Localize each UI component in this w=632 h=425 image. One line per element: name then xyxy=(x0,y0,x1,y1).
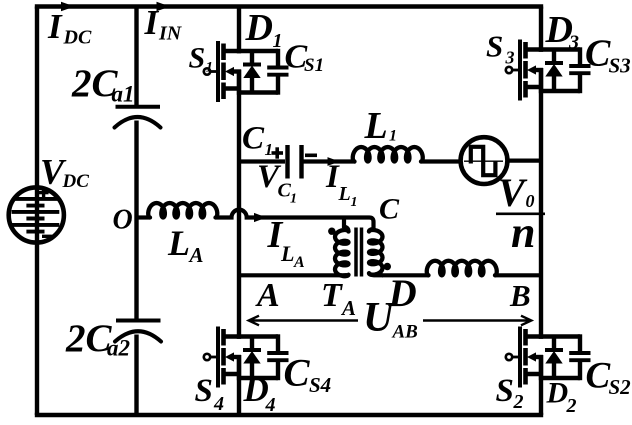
svg-text:C: C xyxy=(379,193,400,226)
capacitor CS3 xyxy=(569,66,590,73)
svg-text:L: L xyxy=(167,223,190,263)
wire snubber loop S3 xyxy=(539,47,580,93)
capacitor CS2 xyxy=(569,353,590,360)
svg-text:S1: S1 xyxy=(304,55,324,76)
polarity dot secondary xyxy=(384,263,391,270)
wire TA secondary to output inductor xyxy=(382,273,429,277)
transistor S1 (MOSFET) xyxy=(204,41,241,102)
diode D2 xyxy=(545,337,563,379)
capacitor 2Ca2 xyxy=(115,321,161,342)
wire TA primary return to A leg xyxy=(239,273,342,277)
svg-text:DC: DC xyxy=(63,27,92,49)
svg-text:4: 4 xyxy=(265,394,276,416)
arrow UAB right xyxy=(423,316,531,326)
svg-text:L: L xyxy=(364,105,388,147)
diode D1 xyxy=(243,51,261,93)
wire output inductor to B leg xyxy=(495,273,541,277)
wire Ca leg lower xyxy=(134,335,138,416)
wire snubber loop S1 xyxy=(237,49,278,95)
wire Ca leg middle xyxy=(134,121,138,321)
wire LA to node C (hops over A leg) xyxy=(216,210,374,231)
svg-text:S: S xyxy=(189,42,206,75)
wire source to B leg xyxy=(507,159,541,163)
arrow current ILA xyxy=(254,213,267,222)
inductor LA xyxy=(148,203,217,218)
transistor S2 (MOSFET) xyxy=(506,327,543,388)
svg-text:DC: DC xyxy=(62,171,90,192)
wire left rail with VDC branch xyxy=(35,7,39,416)
capacitor C1 xyxy=(288,145,302,179)
transistor S4 (MOSFET) xyxy=(204,327,241,388)
wire snubber loop S4 xyxy=(237,334,278,380)
svg-text:U: U xyxy=(363,295,396,341)
polarity dot primary xyxy=(328,228,335,235)
diode D3 xyxy=(545,50,563,92)
wire L1 to square-wave source xyxy=(421,159,459,163)
svg-text:S2: S2 xyxy=(609,375,632,399)
svg-text:A: A xyxy=(188,243,204,267)
wire snubber loop S2 xyxy=(539,334,580,380)
svg-text:D: D xyxy=(245,7,273,49)
svg-text:S4: S4 xyxy=(309,373,331,397)
svg-text:2: 2 xyxy=(566,395,577,417)
transistor S3 (MOSFET) xyxy=(506,40,543,101)
wire B leg top (rail corner to S3 drain) xyxy=(539,7,543,52)
svg-text:S: S xyxy=(486,29,503,64)
svg-text:L: L xyxy=(338,183,351,205)
wire top rail xyxy=(35,4,543,8)
svg-text:a1: a1 xyxy=(112,82,135,107)
source V0/n (square-wave voltage source) xyxy=(461,137,508,184)
capacitor CS4 xyxy=(267,353,288,360)
svg-text:A: A xyxy=(293,254,305,271)
transformer TA secondary winding xyxy=(369,229,374,232)
transformer TA core xyxy=(354,228,358,277)
capacitor 2Ca1 xyxy=(115,107,161,128)
svg-text:S: S xyxy=(195,373,213,409)
fraction bar V0/n xyxy=(496,213,545,216)
plus mark C1 xyxy=(272,151,284,155)
arrow UAB left xyxy=(249,316,358,326)
inductor output filter xyxy=(427,261,497,276)
svg-text:2C: 2C xyxy=(65,317,113,360)
wire node A leg (S1 source to S4 drain) xyxy=(237,70,241,339)
svg-text:A: A xyxy=(340,296,356,320)
svg-text:4: 4 xyxy=(213,393,224,415)
svg-text:S3: S3 xyxy=(609,54,631,78)
diode D4 xyxy=(243,337,261,379)
voltage source VDC xyxy=(9,187,64,242)
svg-text:3: 3 xyxy=(568,32,579,54)
inductor L1 xyxy=(353,147,423,162)
wire A leg to C1 xyxy=(239,159,285,163)
svg-text:T: T xyxy=(321,277,343,314)
wire O to LA xyxy=(137,215,151,219)
svg-text:C: C xyxy=(242,121,265,157)
svg-text:3: 3 xyxy=(505,48,515,68)
minus mark C1 xyxy=(305,154,317,158)
svg-text:1: 1 xyxy=(206,60,214,76)
svg-text:a2: a2 xyxy=(107,336,130,361)
svg-text:C: C xyxy=(284,352,311,395)
svg-text:A: A xyxy=(255,277,280,314)
wire C1 to L1 xyxy=(304,159,356,163)
svg-text:I: I xyxy=(144,3,160,42)
svg-text:S: S xyxy=(496,373,514,409)
arrow current IDC xyxy=(61,2,75,12)
wire bottom rail xyxy=(35,413,543,417)
wire S4 source to bottom rail xyxy=(237,355,241,415)
arrow current IIN xyxy=(157,2,171,12)
svg-text:1: 1 xyxy=(389,128,397,145)
wire S2 source to bottom rail xyxy=(539,355,543,415)
svg-text:n: n xyxy=(511,208,535,257)
svg-text:O: O xyxy=(113,205,133,236)
svg-text:1: 1 xyxy=(273,30,283,52)
wire Ca leg upper xyxy=(134,7,138,106)
svg-text:IN: IN xyxy=(158,23,183,45)
transformer TA primary winding xyxy=(344,216,349,232)
svg-text:1: 1 xyxy=(290,192,297,207)
svg-text:B: B xyxy=(509,278,531,313)
svg-text:1: 1 xyxy=(265,140,274,159)
svg-text:L: L xyxy=(280,241,294,266)
wire node B leg (S3 source to S2 drain) xyxy=(539,68,543,339)
svg-text:2: 2 xyxy=(513,391,524,413)
svg-text:I: I xyxy=(47,7,63,46)
svg-text:AB: AB xyxy=(392,322,418,343)
wire A leg top (rail to S1 drain) xyxy=(237,7,241,54)
svg-text:C: C xyxy=(585,33,611,75)
svg-text:1: 1 xyxy=(351,195,358,210)
svg-text:D: D xyxy=(546,377,569,410)
capacitor CS1 xyxy=(267,68,288,75)
arrow current IL1 xyxy=(328,157,340,166)
